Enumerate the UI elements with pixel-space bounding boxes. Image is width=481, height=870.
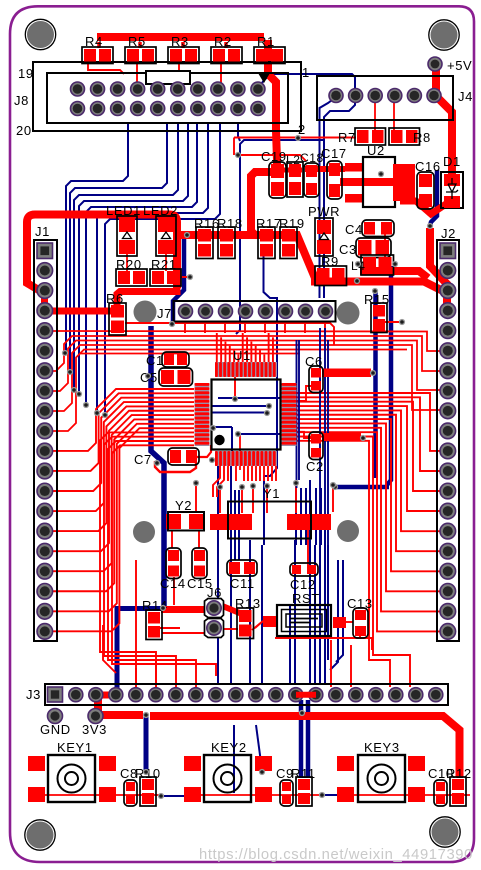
connector J6	[205, 599, 224, 618]
svg-text:R7: R7	[338, 130, 356, 145]
wire red bundle lower-left (J1 to MCU left pins)	[52, 389, 194, 451]
wire thick red J1 pad3-4	[41, 292, 48, 309]
resistor R9	[315, 266, 347, 286]
wire red C14 C15 stubs	[173, 577, 175, 600]
svg-text:R11: R11	[291, 766, 316, 781]
capacitor C14	[166, 548, 181, 579]
svg-text:C17: C17	[321, 146, 347, 161]
mounting hole bottom-left	[27, 822, 54, 849]
svg-text:R2: R2	[214, 34, 232, 49]
svg-text:KEY2: KEY2	[211, 740, 247, 755]
mounting hole top-right	[431, 22, 458, 49]
wire navy inside MCU	[218, 397, 280, 399]
svg-text:C16: C16	[415, 159, 441, 174]
svg-text:R19: R19	[279, 216, 305, 231]
wire thick red top bus R4-R1	[97, 33, 264, 41]
capacitor C2	[309, 432, 323, 460]
svg-text:LED2: LED2	[143, 203, 178, 218]
diode D1	[441, 172, 463, 208]
wire red MCU right to J2/J3	[297, 393, 441, 451]
svg-text:R1: R1	[257, 34, 275, 49]
svg-text:R17: R17	[256, 216, 282, 231]
svg-text:Y2: Y2	[175, 498, 192, 513]
wire red LED stubs	[126, 253, 128, 271]
svg-text:C13: C13	[347, 596, 373, 611]
svg-text:PWR: PWR	[308, 204, 340, 219]
resistor R2	[211, 47, 242, 64]
resistor R12	[450, 777, 466, 806]
svg-text:C12: C12	[290, 577, 316, 592]
wire thick red C19 to mid bus	[251, 172, 272, 235]
svg-text:C6: C6	[305, 354, 323, 369]
svg-text:+5V: +5V	[447, 58, 472, 73]
resistor R4	[82, 47, 113, 64]
svg-text:KEY1: KEY1	[57, 740, 93, 755]
svg-text:1: 1	[302, 65, 310, 80]
vias	[143, 712, 149, 718]
svg-text:C7: C7	[134, 452, 152, 467]
mounting hole mid-right upper	[337, 302, 360, 325]
capacitor C4	[362, 220, 394, 237]
wire navy J1 bottom to J3	[117, 606, 163, 611]
wire navy thick mid-left	[151, 326, 164, 606]
wire thick red bottom long bus	[150, 716, 460, 778]
pad GND	[48, 709, 63, 724]
capacitor C11	[227, 560, 257, 576]
capacitor C6	[309, 366, 323, 393]
capacitor C5	[159, 368, 193, 386]
wire red R15 stub	[379, 321, 402, 323]
wire thick red R1 down through J8	[268, 40, 277, 168]
wire navy D1 column	[430, 206, 437, 226]
svg-text:R8: R8	[413, 130, 431, 145]
wire thick red C19 link	[283, 168, 302, 173]
switch RST	[277, 605, 331, 636]
svg-text:C4: C4	[345, 222, 363, 237]
wire red J3 feeds	[330, 640, 332, 687]
mounting hole top-left	[27, 21, 54, 48]
wire thick red C18-C17-U2	[305, 166, 345, 172]
wire navy bundle from J8 left columns	[66, 123, 128, 353]
wire thick red R15 bar	[318, 369, 326, 377]
svg-text:R21: R21	[151, 257, 177, 272]
resistor R7	[355, 128, 386, 145]
pad 3V3	[88, 709, 103, 724]
svg-text:20: 20	[16, 123, 32, 138]
svg-text:3V3: 3V3	[82, 722, 107, 737]
mounting hole mid-left lower	[133, 521, 155, 543]
capacitor C3	[356, 238, 391, 258]
svg-text:R16: R16	[194, 216, 220, 231]
svg-text:J4: J4	[458, 89, 473, 104]
svg-text:J7: J7	[157, 306, 172, 321]
wire navy J4 pad1 down-left	[320, 97, 337, 170]
capacitor C10	[434, 780, 447, 806]
wire navy J8 pin1 to J4	[258, 74, 355, 170]
svg-text:KEY3: KEY3	[364, 740, 400, 755]
capacitor C19	[269, 162, 286, 198]
crystal Y1	[210, 514, 252, 530]
wire red bundle trunk lines to J3	[100, 432, 194, 687]
wire thick red +5V to D1	[436, 64, 452, 176]
wire red J7 stubs	[184, 321, 186, 333]
svg-text:C11: C11	[230, 576, 255, 591]
svg-text:J1: J1	[35, 224, 50, 239]
svg-text:J8: J8	[14, 93, 29, 108]
wire red C7 links	[197, 445, 211, 457]
wire navy right thick pair	[373, 292, 378, 478]
svg-text:C2: C2	[306, 459, 324, 474]
wire thick red J2 pad3 link	[430, 228, 447, 307]
wire thick red to R6	[117, 287, 177, 306]
wire navy mid verticals below MCU	[217, 466, 219, 684]
svg-text:R4: R4	[85, 34, 103, 49]
connector J8	[33, 62, 301, 131]
capacitor C16	[417, 172, 434, 209]
svg-text:L2: L2	[286, 153, 301, 167]
resistor R20	[116, 269, 147, 286]
resistor R16	[196, 227, 213, 259]
wire navy long vertical B	[264, 246, 278, 545]
wire red MCU bottom fan	[227, 466, 229, 481]
mounting hole mid-right lower	[337, 520, 359, 542]
connector J1	[34, 240, 57, 641]
capacitor C13	[353, 608, 368, 638]
wire thick red LED bus	[27, 214, 35, 222]
LED LED1	[117, 216, 137, 256]
wire red key rows	[45, 794, 160, 796]
svg-text:R5: R5	[128, 34, 146, 49]
resistor R14	[146, 610, 162, 640]
connector J7	[174, 301, 336, 322]
wire navy PWR pair	[319, 170, 321, 298]
mounting hole mid-left upper	[134, 301, 157, 324]
svg-text:LED1: LED1	[106, 203, 141, 218]
wire red R21 stub	[180, 276, 190, 278]
switch KEY3	[337, 756, 354, 771]
wire red R7 feed	[234, 137, 356, 139]
resistor R8	[389, 128, 420, 145]
wire thick red mid bus y235	[179, 235, 443, 291]
connector J2	[437, 240, 459, 641]
capacitor C1	[162, 352, 189, 367]
svg-text:C15: C15	[187, 576, 213, 591]
wire red R14 stub	[160, 627, 180, 629]
regulator U2	[345, 163, 362, 172]
wire navy right of MCU verticals	[296, 340, 298, 488]
wire red Y1 Y2 area	[195, 483, 197, 513]
wire red R6 line	[125, 323, 334, 345]
inductor L2	[287, 162, 303, 197]
resistor R18	[218, 227, 235, 259]
svg-text:R12: R12	[446, 766, 472, 781]
resistor R3	[168, 47, 199, 64]
resistor R5	[125, 47, 156, 64]
svg-text:U2: U2	[367, 143, 385, 158]
wire thick red D1 bottom to U2 tab	[400, 201, 446, 214]
inductor L4	[361, 255, 394, 275]
wire red RST net	[252, 621, 263, 630]
wire red fan J7 to MCU top	[216, 333, 218, 363]
wire thick red L4 bus y271	[360, 271, 428, 278]
mounting hole bottom-right	[432, 819, 459, 846]
capacitor C12	[290, 563, 318, 576]
svg-text:C1: C1	[146, 353, 164, 368]
wire red bundle upper (J1/J7 to J2)	[45, 331, 441, 351]
svg-text:C14: C14	[160, 576, 186, 591]
crystal Y2	[166, 514, 181, 529]
svg-text:J2: J2	[441, 226, 456, 241]
svg-text:R13: R13	[235, 596, 261, 611]
wire thick red C6 bar	[322, 369, 371, 377]
resistor R15	[371, 303, 387, 333]
svg-text:C19: C19	[261, 149, 287, 164]
LED PWR	[315, 218, 333, 256]
svg-text:R15: R15	[364, 292, 390, 307]
wire thick red C2 bar	[322, 433, 361, 441]
svg-text:https://blog.csdn.net/weixin_4: https://blog.csdn.net/weixin_44917390	[199, 847, 473, 863]
switch KEY1	[28, 756, 45, 771]
svg-text:2: 2	[298, 122, 306, 137]
resistor R13	[237, 608, 254, 639]
wire red C4 C3 L4 link	[384, 230, 386, 264]
wire navy horizontal to via	[335, 485, 389, 490]
resistor R6	[109, 303, 126, 335]
svg-text:D1: D1	[443, 154, 461, 169]
resistor R17	[258, 227, 275, 259]
svg-text:R6: R6	[106, 291, 124, 306]
wire red C6 C2 pad links	[297, 386, 311, 401]
resistor R11	[296, 777, 312, 806]
capacitor C15	[192, 548, 207, 579]
wire red J4 to R7 R8 stubs	[374, 98, 376, 130]
svg-text:C3: C3	[339, 242, 357, 257]
wire thick red mid-left bar2	[322, 369, 371, 377]
capacitor C9	[280, 780, 293, 806]
connector J4	[317, 76, 453, 120]
wire thick red J6 link	[161, 606, 206, 613]
LED LED2	[156, 216, 176, 256]
wire red top resistor stubs	[88, 61, 124, 74]
svg-text:J3: J3	[26, 687, 41, 702]
wire navy Y1 area	[238, 490, 240, 560]
resistor R21	[150, 269, 181, 286]
wire thick red top-left horizontal	[27, 215, 177, 289]
resistor R10	[140, 777, 156, 806]
capacitor C18	[304, 163, 319, 197]
wire navy LED2 diagonal to via	[173, 237, 184, 322]
wire navy long vertical A	[238, 123, 240, 141]
switch KEY2	[184, 756, 201, 771]
resistor R19	[280, 227, 297, 259]
svg-text:R18: R18	[217, 216, 243, 231]
wire red J3 pads13-14 link	[296, 692, 316, 698]
svg-text:RST: RST	[292, 591, 320, 606]
capacitor C8	[124, 780, 137, 806]
wire navy RST right pair	[330, 560, 338, 670]
connector J3	[45, 684, 448, 705]
wire navy bottom keys	[144, 715, 149, 771]
capacitor C17	[327, 161, 342, 199]
capacitor C7	[168, 448, 199, 465]
pad +5V	[428, 57, 442, 71]
svg-text:19: 19	[18, 66, 34, 81]
wire thick red 3V3 bus	[98, 695, 143, 715]
wire thick red U2 band	[340, 178, 395, 186]
svg-text:R3: R3	[171, 34, 189, 49]
svg-text:GND: GND	[40, 722, 71, 737]
svg-text:R20: R20	[116, 257, 142, 272]
resistor R1	[254, 47, 285, 64]
svg-text:U1: U1	[233, 348, 251, 363]
